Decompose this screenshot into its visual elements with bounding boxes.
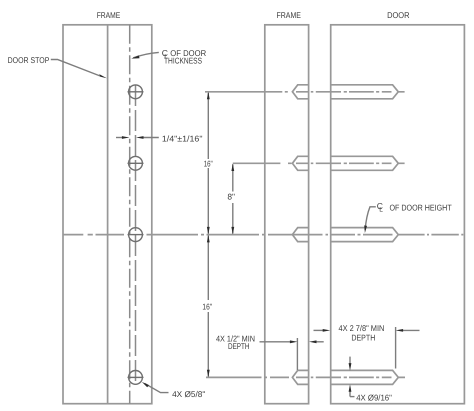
door-side drill profile hinge 2 [331,156,399,170]
arrow 9/16 top [349,363,352,371]
arrow 2-7/8 right [396,329,404,332]
2-7/8 depth dim line left [314,329,324,331]
door-side drill profile hinge 1 [331,85,399,99]
8 inch dim line [232,164,234,191]
svg-text:DEPTH: DEPTH [228,341,250,351]
2-7/8 depth extension line [395,327,397,369]
door thickness CL leader [133,52,159,58]
arrow quarter right [136,136,144,139]
frame-side drill profile hinge 4 [292,370,308,384]
arrowheads [99,56,403,392]
hole centers dashed line [135,85,137,385]
hinge hole profiles [292,85,398,385]
frame centerline (door thickness CL) [129,25,131,404]
arrow door stop [99,74,107,78]
svg-text:FRAME: FRAME [277,10,302,20]
door outline [331,25,465,404]
svg-text:FRAME: FRAME [97,10,121,20]
arrow 8 top [231,164,234,172]
16 inch dim upper line [207,93,209,159]
arrow 16 upper top [207,92,210,100]
hinge 2 centerline [233,162,405,164]
hinge 4 centerline [206,376,405,378]
frame (left section) outline [63,25,152,404]
svg-text:16": 16" [204,158,213,168]
crosshair hole 4 [128,376,144,378]
crosshair hole 3 [128,234,144,236]
door height CL leader [365,207,376,230]
2-7/8 depth dim line right [403,329,420,331]
door-side drill profile hinge 4 [331,370,399,384]
arrow 16 lower bottom [207,370,210,378]
hinge 3 centerline (CL of door height) [63,234,463,236]
hinge centerlines [63,92,463,378]
hole circle 1 [129,85,143,99]
frame-side drill profile hinge 2 [292,156,308,170]
door stop line [107,25,109,404]
svg-text:4X Ø5/8": 4X Ø5/8" [172,389,205,399]
half inch depth dim line right [316,341,324,343]
svg-text:L: L [379,207,383,214]
svg-text:THICKNESS: THICKNESS [164,55,202,65]
hinge 1 centerline [205,91,405,93]
5/8 dia leader [145,383,169,392]
half inch depth dim line left [260,341,291,343]
frame-side drill profile hinge 3 [292,228,308,242]
door stop leader [51,60,101,77]
hole circle 2 [129,156,143,170]
arrow height [364,225,367,233]
arrow half left [290,340,298,343]
arrow 2-7/8 left [323,329,331,332]
hole circle 4 [129,371,143,385]
svg-text:8": 8" [227,192,235,202]
frame-side drill profile hinge 1 [292,85,308,99]
arrow 16 upper bottom [207,227,210,235]
svg-text:DOOR: DOOR [387,10,409,20]
svg-text:1/4"±1/16": 1/4"±1/16" [162,133,203,143]
arrow thickness [131,56,139,59]
arrow 8 bottom [231,227,234,235]
quarter dim leader lines [116,137,123,139]
svg-text:DOOR STOP: DOOR STOP [8,55,50,65]
arrow 16 lower top [207,235,210,243]
svg-text:OF DOOR HEIGHT: OF DOOR HEIGHT [390,203,452,213]
crosshair hole 1 [128,91,144,93]
arrow 5/8 [142,382,149,387]
frame (middle section) outline [265,25,309,404]
svg-text:4X Ø9/16": 4X Ø9/16" [356,393,392,403]
crosshair hole 2 [128,162,144,164]
door-side drill profile hinge 3 [331,228,399,242]
half depth extension line [296,338,298,370]
arrow quarter left [122,136,129,139]
9/16 dia dim upper line [349,357,351,364]
hole circle 3 [129,228,143,242]
dimension lines [51,52,420,396]
svg-text:DEPTH: DEPTH [351,332,375,342]
9/16 dia dim lower line [349,391,351,397]
svg-text:16": 16" [202,302,212,312]
16 inch dim lower line [207,236,209,300]
arrow 9/16 bottom [349,384,352,392]
arrow half right [309,340,317,343]
